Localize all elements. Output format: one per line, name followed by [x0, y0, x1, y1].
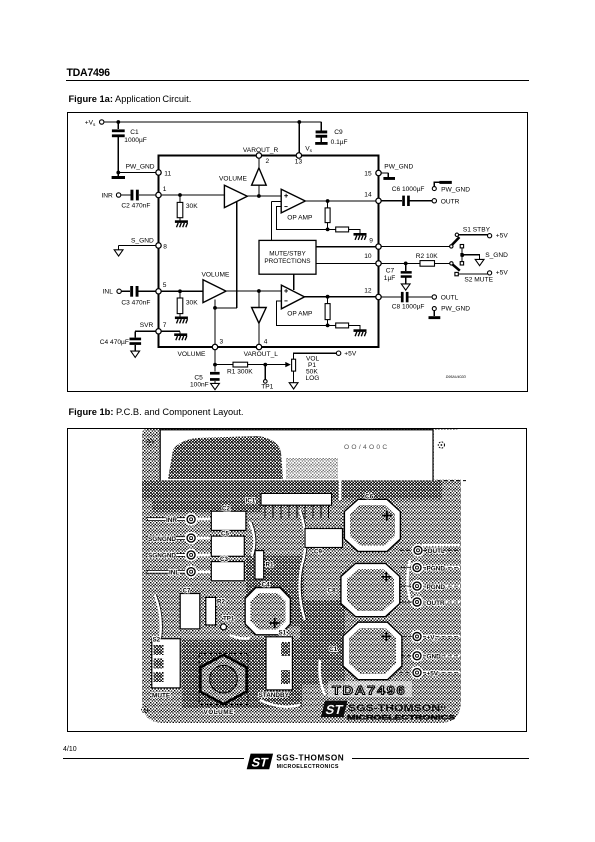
svg-text:SGS-THOMSON: SGS-THOMSON — [276, 754, 344, 763]
svg-text:MICROELECTRONICS: MICROELECTRONICS — [277, 764, 339, 770]
